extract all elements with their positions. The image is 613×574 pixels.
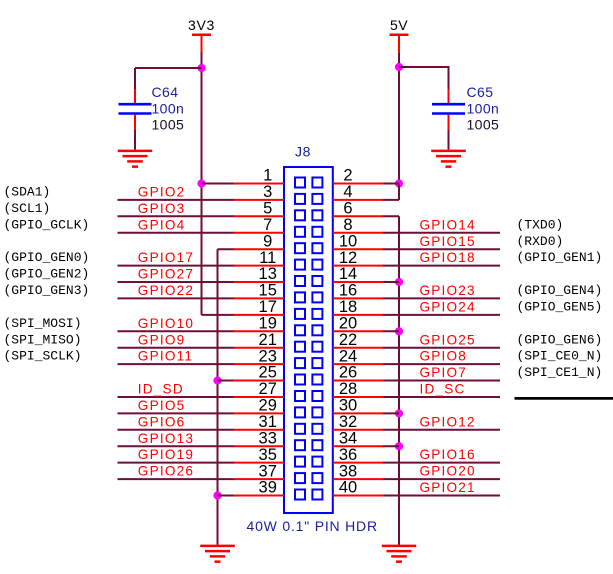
svg-text:35: 35: [259, 446, 277, 464]
svg-text:18: 18: [339, 298, 357, 316]
svg-text:(SPI_SCLK): (SPI_SCLK): [4, 349, 82, 364]
svg-text:J8: J8: [295, 143, 311, 159]
svg-text:16: 16: [339, 282, 357, 300]
svg-text:(GPIO_GEN2): (GPIO_GEN2): [4, 267, 90, 282]
svg-text:36: 36: [339, 446, 357, 464]
svg-text:8: 8: [343, 216, 352, 234]
svg-text:GPIO2: GPIO2: [138, 185, 186, 200]
wire net ID_SC: [383, 396, 501, 398]
wire GND to pin34: [383, 445, 400, 447]
wire 5V rail vertical: [398, 53, 400, 200]
junction GND pin34: [395, 442, 403, 450]
svg-text:12: 12: [339, 249, 357, 267]
svg-text:(GPIO_GEN5): (GPIO_GEN5): [517, 300, 603, 315]
svg-text:13: 13: [259, 265, 277, 283]
wire net GPIO25: [383, 347, 501, 349]
wire 3V3 rail vertical: [201, 52, 203, 315]
svg-text:(SPI_CE1_N): (SPI_CE1_N): [517, 365, 603, 380]
wire net GPIO23: [383, 297, 501, 299]
wire net GPIO18: [383, 265, 501, 267]
svg-text:25: 25: [259, 364, 277, 382]
svg-text:28: 28: [339, 380, 357, 398]
power symbol 3V3: [188, 17, 215, 53]
svg-text:ID_SD: ID_SD: [138, 382, 184, 397]
wire net GPIO10: [118, 330, 235, 332]
svg-text:(TXD0): (TXD0): [517, 217, 564, 232]
svg-text:GPIO18: GPIO18: [420, 250, 476, 265]
svg-text:37: 37: [259, 462, 277, 480]
svg-text:GPIO27: GPIO27: [138, 267, 194, 282]
junction 3V3 pin1: [197, 179, 205, 187]
svg-text:GPIO6: GPIO6: [138, 414, 186, 429]
ground bottom-left: [200, 546, 235, 562]
svg-text:(SPI_MOSI): (SPI_MOSI): [4, 316, 82, 331]
wire net GPIO11: [118, 363, 235, 365]
svg-text:31: 31: [259, 413, 277, 431]
wire off-page (black): [515, 397, 613, 400]
svg-text:C65: C65: [467, 84, 494, 100]
wire GND to pin20: [383, 330, 400, 332]
svg-text:100n: 100n: [467, 101, 500, 117]
wire GND to pin9: [218, 248, 235, 250]
svg-text:33: 33: [259, 429, 277, 447]
svg-text:GPIO16: GPIO16: [420, 447, 476, 462]
svg-text:23: 23: [259, 347, 277, 365]
wire GND to pin6: [383, 215, 400, 217]
junction GND pin20: [395, 327, 403, 335]
svg-text:GPIO10: GPIO10: [138, 316, 194, 331]
svg-text:22: 22: [339, 331, 357, 349]
svg-text:(GPIO_GEN3): (GPIO_GEN3): [4, 283, 90, 298]
svg-text:1: 1: [263, 167, 272, 185]
svg-text:32: 32: [339, 413, 357, 431]
wire net GPIO8: [383, 363, 501, 365]
junction 5V pin2: [395, 179, 403, 187]
wire left GND bus: [217, 249, 219, 545]
svg-text:15: 15: [259, 282, 277, 300]
ground bottom-right: [382, 546, 416, 562]
pin numbers right: [339, 167, 357, 497]
svg-text:3V3: 3V3: [188, 17, 215, 33]
svg-text:9: 9: [263, 232, 272, 250]
svg-text:GPIO12: GPIO12: [420, 414, 476, 429]
svg-text:GPIO22: GPIO22: [138, 283, 194, 298]
svg-text:GPIO3: GPIO3: [138, 201, 186, 216]
wire 3V3 to pin17: [202, 314, 235, 316]
wire net GPIO6: [118, 429, 235, 431]
junction GND pin39: [213, 491, 221, 499]
svg-text:(GPIO_GEN6): (GPIO_GEN6): [517, 332, 603, 347]
svg-text:GPIO19: GPIO19: [138, 447, 194, 462]
svg-text:GPIO25: GPIO25: [420, 332, 476, 347]
svg-text:(GPIO_GEN0): (GPIO_GEN0): [4, 250, 90, 265]
wire net GPIO20: [383, 478, 501, 480]
power symbol 5V: [390, 17, 409, 54]
svg-text:(GPIO_GCLK): (GPIO_GCLK): [4, 217, 90, 232]
svg-text:100n: 100n: [152, 101, 185, 117]
junction GND pin30: [395, 409, 403, 417]
wire net GPIO24: [383, 314, 501, 316]
wire GND to pin30: [383, 412, 400, 414]
svg-text:GPIO7: GPIO7: [420, 365, 468, 380]
svg-text:7: 7: [263, 216, 272, 234]
capacitor C65: [432, 68, 499, 150]
svg-text:4: 4: [343, 183, 352, 201]
pin numbers left: [259, 167, 277, 497]
svg-text:5: 5: [263, 200, 272, 218]
svg-text:GPIO11: GPIO11: [138, 349, 193, 364]
svg-text:GPIO13: GPIO13: [138, 431, 194, 446]
svg-text:17: 17: [259, 298, 277, 316]
wire net GPIO17: [118, 265, 235, 267]
junction 5V/C65: [395, 63, 403, 71]
svg-text:24: 24: [339, 347, 357, 365]
svg-text:GPIO5: GPIO5: [138, 398, 186, 413]
svg-text:(SPI_MISO): (SPI_MISO): [4, 332, 82, 347]
J8 right pins 2-40: [333, 184, 384, 496]
svg-text:19: 19: [259, 315, 277, 333]
junction GND pin14: [395, 278, 403, 286]
svg-text:(RXD0): (RXD0): [517, 234, 564, 249]
wire net GPIO22: [118, 297, 235, 299]
wire net GPIO19: [118, 462, 235, 464]
wire right GND bus: [398, 216, 400, 545]
wire net GPIO26: [118, 478, 235, 480]
wire 5V to pin2: [383, 183, 400, 185]
wire net GPIO5: [118, 412, 235, 414]
svg-text:29: 29: [259, 397, 277, 415]
svg-text:1005: 1005: [467, 117, 500, 133]
svg-text:GPIO17: GPIO17: [138, 250, 194, 265]
wire net GPIO16: [383, 462, 501, 464]
svg-text:11: 11: [259, 249, 276, 267]
wire net GPIO21: [383, 495, 501, 497]
wire GND to pin14: [383, 281, 400, 283]
svg-text:34: 34: [339, 429, 357, 447]
svg-text:10: 10: [339, 232, 357, 250]
wire net GPIO12: [383, 429, 501, 431]
ground C65: [431, 151, 466, 167]
svg-text:(GPIO_GEN1): (GPIO_GEN1): [517, 250, 603, 265]
wire net ID_SD: [118, 396, 235, 398]
wire 3V3 to pin1: [202, 183, 235, 185]
svg-text:(SCL1): (SCL1): [4, 201, 51, 216]
wire net GPIO13: [118, 445, 235, 447]
svg-text:GPIO24: GPIO24: [420, 300, 476, 315]
svg-text:5V: 5V: [390, 17, 408, 33]
svg-text:1005: 1005: [152, 117, 185, 133]
svg-text:GPIO14: GPIO14: [420, 217, 476, 232]
wire net GPIO4: [118, 232, 235, 234]
wire C64 branch: [135, 67, 202, 69]
wire net GPIO14: [383, 232, 501, 234]
svg-text:GPIO21: GPIO21: [420, 480, 476, 495]
J8 left pins 1-39: [234, 184, 285, 496]
wire net GPIO2: [118, 199, 235, 201]
svg-text:27: 27: [259, 380, 277, 398]
svg-text:GPIO9: GPIO9: [138, 332, 186, 347]
junction 3V3/C64: [197, 64, 205, 72]
wire GND to pin39: [218, 495, 235, 497]
svg-text:38: 38: [339, 462, 357, 480]
svg-text:ID_SC: ID_SC: [420, 382, 466, 397]
connector J8 pin pads: [295, 178, 322, 500]
wire 5V to pin4: [383, 199, 400, 201]
svg-text:GPIO4: GPIO4: [138, 217, 186, 232]
svg-text:40W 0.1" PIN HDR: 40W 0.1" PIN HDR: [247, 518, 378, 534]
wire net GPIO15: [383, 248, 501, 250]
svg-text:14: 14: [339, 265, 357, 283]
svg-text:GPIO8: GPIO8: [420, 349, 468, 364]
capacitor C64: [119, 68, 185, 150]
svg-text:40: 40: [339, 479, 357, 497]
svg-text:3: 3: [263, 183, 272, 201]
svg-text:21: 21: [259, 331, 277, 349]
wire 5V vertical pin2-pin4: [398, 184, 400, 200]
svg-text:GPIO26: GPIO26: [138, 464, 194, 479]
junction GND pin25: [213, 376, 221, 384]
svg-text:(SPI_CE0_N): (SPI_CE0_N): [517, 349, 603, 364]
svg-text:26: 26: [339, 364, 357, 382]
wire net GPIO7: [383, 380, 501, 382]
svg-text:(SDA1): (SDA1): [4, 185, 51, 200]
svg-text:GPIO20: GPIO20: [420, 464, 476, 479]
svg-text:6: 6: [343, 200, 352, 218]
wire net GPIO27: [118, 281, 235, 283]
svg-text:C64: C64: [152, 84, 179, 100]
wire net GPIO9: [118, 347, 235, 349]
svg-text:GPIO23: GPIO23: [420, 283, 476, 298]
svg-text:30: 30: [339, 397, 357, 415]
connector J8 body: [284, 167, 333, 513]
wire C65 branch: [399, 66, 450, 69]
svg-text:39: 39: [259, 479, 277, 497]
svg-text:GPIO15: GPIO15: [420, 234, 476, 249]
wire net GPIO3: [118, 215, 235, 217]
svg-text:2: 2: [343, 167, 352, 185]
svg-text:20: 20: [339, 315, 357, 333]
svg-text:(GPIO_GEN4): (GPIO_GEN4): [517, 283, 603, 298]
ground C64: [118, 151, 152, 167]
wire GND to pin25: [218, 380, 235, 382]
